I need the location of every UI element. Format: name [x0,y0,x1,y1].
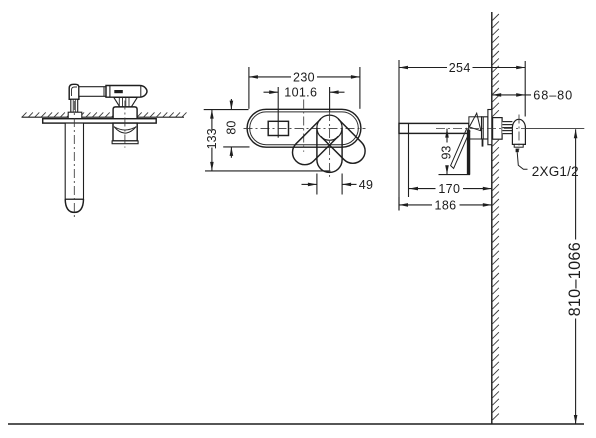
extension line 101.6 left / spout centerline [277,87,279,138]
spout riser tube through wall (top view) [71,99,78,112]
dimension 186 horizontal [399,204,432,206]
extension line spout tip (254/186) [398,60,400,211]
svg-text:230: 230 [293,70,315,84]
extension line lever tip for 93 [439,174,471,176]
handle lever lobe down-left 45deg [292,119,338,165]
svg-text:254: 254 [449,61,471,75]
height reference extension line [526,128,584,130]
wall mounting plate (edge view) [43,119,157,123]
dome centerline (dash-dot) [518,115,520,150]
svg-text:133: 133 [205,128,219,149]
extension line 101.6 right / handle centerline [329,87,331,112]
svg-text:170: 170 [438,182,460,196]
valve dome arc [114,127,136,134]
wall section line (top view) with hatching [22,112,187,117]
threaded connector section behind wall [502,121,512,134]
spout tube below plate (top view) [65,123,83,199]
grip nose joint line [140,86,142,97]
tube coupling joint lines [103,87,105,97]
svg-text:2XG1/2: 2XG1/2 [532,164,579,179]
svg-text:68–80: 68–80 [533,88,573,102]
valve body lower stub [482,139,484,147]
extension line lever tip for 133 [205,170,330,172]
leader line to 2XG1/2 [516,149,519,153]
cover plate oval outer outline [247,109,361,147]
dimension 93 vertical [445,129,449,138]
extension line 49 right [341,174,343,195]
cover plate oval inner outline [250,112,359,145]
valve body below plate (top view) [113,123,137,141]
dome nipple [514,144,523,147]
svg-text:80: 80 [225,121,239,135]
dimension 101.6 horizontal arrows outside [264,91,279,93]
handle base circle [317,115,342,140]
valve bottom flange (top view) [112,141,138,144]
in-wall supply tube (top view) [79,87,106,97]
svg-text:49: 49 [359,178,374,192]
dimension 254 horizontal [399,67,447,69]
floor line [8,423,584,425]
dimension 810-1066 vertical [575,129,577,239]
extension line 49 left [316,174,318,195]
lever cone (top view) with hatch lines [114,97,138,107]
spout cap joint line [65,198,83,200]
grip left cap line [109,86,111,98]
plate vertical centerline (dash-dot) [303,100,305,152]
extension line 186 left stub [398,197,400,211]
lever mid-position diagonal [451,128,470,168]
extension line 230 left [248,67,250,109]
grip slot mark [115,90,123,92]
dimension 80 vertical arrows outside [230,99,232,110]
spout holder block at valve [469,117,482,139]
spout rounded end cap [65,199,83,212]
dimension 133 vertical [211,110,213,131]
lever up-position triangle [469,113,481,131]
svg-text:101.6: 101.6 [284,86,317,100]
handle lever lobe pointing down [317,128,342,173]
extension line 230 right [359,67,361,109]
mixer grip cylinder (top view) [106,86,147,98]
wall vertical line with hatching [491,12,493,424]
handle lever lobe down-right 45deg [321,119,365,163]
lever down-position bar [467,131,470,175]
svg-text:810–1066: 810–1066 [566,242,584,316]
spout centerline (dash-dot) [73,101,75,220]
dimension 170 horizontal [409,188,436,190]
escutcheon plate at wall face [488,110,492,145]
valve centerline (dash-dot) [124,101,126,148]
spout tube side view [399,123,469,133]
spout riser flange nut [68,112,82,119]
valve flange behind wall [493,118,503,140]
svg-text:93: 93 [440,146,454,160]
dimension 230 horizontal [249,76,291,78]
aerator joint line / 170 extension [408,123,410,197]
dimension 68-80 horizontal [492,94,531,96]
valve escutcheon flange on wall plate (top view) [113,107,137,119]
supply connection dome behind wall [512,119,525,144]
extension line oval bottom for 80 [223,146,249,148]
valve cartridge block front of wall [482,117,488,139]
dimension 49 arrows outside [302,183,317,185]
extension line oval top for 80/133 [204,109,249,111]
extension line valve back (254/68-80) [524,61,526,117]
in-wall elbow fitting (top view) [69,84,79,99]
handle vertical centerline (dash-dot) [329,112,331,177]
faucet centerline (dash-dot) [436,128,528,130]
svg-text:186: 186 [435,198,457,212]
plate horizontal centerline (dash-dot) [244,127,366,129]
spout outlet rectangle on plate [268,121,288,135]
